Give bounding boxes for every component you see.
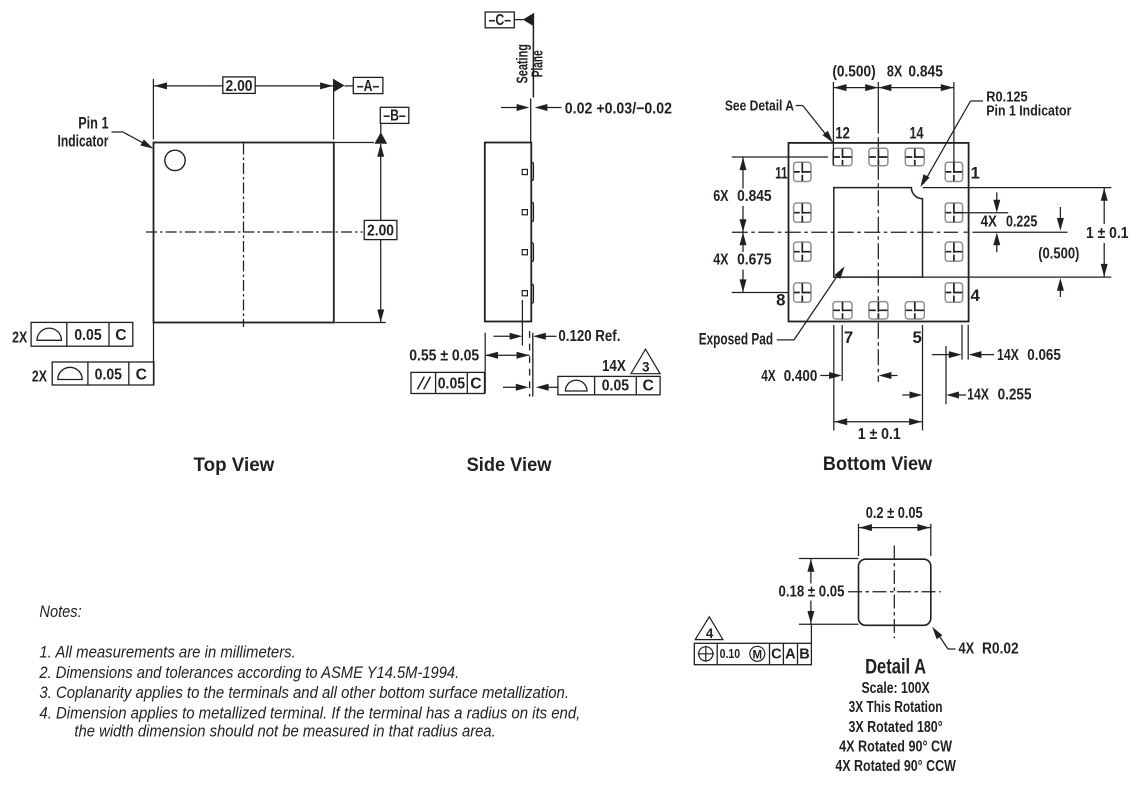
svg-text:Indicator: Indicator [58,132,109,151]
svg-text:0.10: 0.10 [720,647,741,661]
dimension 8X 0.845 top extension line [953,82,955,164]
dimension 14X 0.255 arrows and text [902,394,910,396]
top view left edge extension line [153,323,155,386]
svg-text:0.255: 0.255 [998,386,1032,403]
dimension 14X 0.255 extension line [945,346,947,404]
svg-text:0.2 ± 0.05: 0.2 ± 0.05 [866,505,923,522]
dimension 0.55 extension line [484,333,486,394]
svg-text:(0.500): (0.500) [832,63,875,80]
svg-text:4X: 4X [713,252,729,269]
dimension 0.02 arrows and text [501,107,518,109]
side view package body [485,143,532,322]
top view horizontal centerline [146,231,363,233]
svg-text:2X: 2X [12,329,28,346]
svg-text:Scale: 100X: Scale: 100X [862,680,931,697]
svg-text:3X This Rotation: 3X This Rotation [849,699,943,716]
dimension 6X 0.845 left [740,157,747,170]
svg-text:8: 8 [776,291,785,310]
svg-text:6X: 6X [713,188,729,205]
svg-text:2X: 2X [32,368,48,385]
svg-text:–B–: –B– [383,108,406,125]
seating plane line upper [532,13,534,97]
dimension 2.00 horizontal value box [223,77,255,94]
top view vertical centerline [243,144,245,328]
svg-text:0.675: 0.675 [737,252,772,269]
side view terminal bumps [531,162,533,180]
svg-text:2. Dimensions and tolerances a: 2. Dimensions and tolerances according t… [39,663,460,682]
svg-text:C: C [136,366,147,383]
svg-text:C: C [771,647,782,663]
dimension 4X 0.675 left extension line [732,292,789,294]
svg-text:0.845: 0.845 [908,63,943,80]
detail A terminal pad [859,559,931,625]
dimension 4X 0.225 right [961,212,1008,214]
svg-text:2.00: 2.00 [367,223,394,240]
svg-text:4: 4 [706,626,714,641]
dimension 2.00 vertical extension lines [334,142,374,144]
top view package body outline [154,143,334,323]
datum A symbol [334,79,345,92]
svg-text:C: C [643,378,654,395]
svg-text:4X Rotated 90° CCW: 4X Rotated 90° CCW [835,758,956,775]
dimension 4X 0.400 extension line [841,325,843,381]
svg-text:14X: 14X [967,386,989,403]
svg-text:4X: 4X [959,640,975,657]
dimension 0.18 extension lines [799,558,859,560]
svg-text:11: 11 [775,164,788,183]
dimension 4X 0.675 left [740,233,747,246]
svg-text:1. All measurements are in mil: 1. All measurements are in millimeters. [39,643,295,662]
dimension 2.00 vertical value box [364,220,397,239]
svg-text:5: 5 [913,328,922,347]
svg-text:4X Rotated 90° CW: 4X Rotated 90° CW [839,739,952,756]
pin 1 leader arrow [112,131,124,133]
dimension 0.2 extension lines [858,524,860,556]
feature control frame position [694,643,811,664]
svg-text:1 ± 0.1: 1 ± 0.1 [858,426,901,443]
svg-text:A: A [785,647,796,663]
exposed pad bottom extension line right [923,276,1112,278]
svg-text:4. Dimension applies to metall: 4. Dimension applies to metallized termi… [39,703,580,722]
svg-text:2.00: 2.00 [226,78,253,95]
dimension 0.2 line and arrows [859,527,931,529]
feature control frame profile side view [503,386,517,388]
svg-text:0.225: 0.225 [1006,213,1038,230]
svg-text:0.845: 0.845 [737,188,772,205]
svg-text:0.18 ± 0.05: 0.18 ± 0.05 [779,583,845,600]
feature control frame parallelism [411,372,485,393]
FCF connector line [810,624,812,643]
svg-text:Pin 1 Indicator: Pin 1 Indicator [986,103,1071,120]
svg-text:0.120 Ref.: 0.120 Ref. [558,328,620,345]
dimension (0.500) top line and arrows [833,87,878,89]
dimension 0.18 line arrows and text [807,559,814,572]
svg-text:the width dimension should not: the width dimension should not be measur… [74,722,495,741]
seating plane label [515,44,532,84]
dimension 2.00 horizontal line and arrows [154,85,333,87]
svg-text:3. Coplanarity applies to the: 3. Coplanarity applies to the terminals … [39,683,569,702]
svg-text:14X: 14X [997,347,1019,364]
svg-text:8X: 8X [887,63,903,80]
seating plane line lower [532,333,534,397]
svg-text:–A–: –A– [357,78,380,95]
detail A horizontal centerline [848,591,941,593]
svg-text:0.02 +0.03/−0.02: 0.02 +0.03/−0.02 [565,100,672,117]
dimension (0.500) right [1059,207,1061,219]
dimension 2.00 vertical line and arrows [377,144,384,157]
svg-text:0.55 ± 0.05: 0.55 ± 0.05 [409,347,479,364]
svg-text:7: 7 [844,328,853,347]
svg-text:0.05: 0.05 [438,375,466,392]
dimension 2.00 horizontal extension lines [152,79,154,140]
package surface offset line [530,99,532,143]
svg-text:See Detail A: See Detail A [725,97,794,114]
svg-text:Bottom View: Bottom View [823,453,933,475]
dimension 0.120 Ref arrows and text [494,335,511,337]
svg-text:0.05: 0.05 [95,366,123,383]
dimension 1 plus minus 0.1 bottom [834,421,922,423]
datum C symbol [485,12,514,28]
svg-text:B: B [799,647,809,663]
svg-text:1 ± 0.1: 1 ± 0.1 [1086,225,1129,242]
svg-text:C: C [115,327,126,344]
svg-text:R0.02: R0.02 [982,640,1019,657]
dimension 8X 0.845 top line and arrows [878,87,954,89]
exposed pad top extension line right [923,187,1112,189]
dimension 14X 0.065 extension lines [961,325,963,360]
dimension 14X 0.065 arrows and text [932,354,950,356]
svg-text:Exposed Pad: Exposed Pad [699,331,773,349]
svg-text:(0.500): (0.500) [1038,246,1079,263]
svg-text:14: 14 [910,123,924,142]
svg-text:3: 3 [642,359,650,374]
dimension (0.500) top extension line [832,82,834,166]
svg-text:14X: 14X [602,358,626,375]
svg-text:C: C [470,375,481,392]
svg-text:Notes:: Notes: [39,602,82,621]
note flag 4 [695,617,723,640]
svg-text:3X Rotated 180°: 3X Rotated 180° [849,719,943,736]
dimension 0.120 Ref extension line [521,300,523,346]
bottom view package outline [789,143,969,322]
bottom view vertical centerline [877,82,879,134]
svg-text:12: 12 [835,123,850,142]
svg-text:Plane: Plane [529,50,546,77]
svg-text:0.05: 0.05 [74,327,102,344]
svg-text:M: M [753,649,763,661]
detail A vertical centerline [893,546,895,639]
svg-text:0.05: 0.05 [602,378,630,395]
svg-text:0.400: 0.400 [784,368,818,385]
dimension 6X 0.845 left extension line [732,156,828,158]
svg-text:Detail A: Detail A [865,656,926,679]
svg-text:–C–: –C– [489,12,512,29]
dimension 1 plus minus 0.1 right [1101,188,1108,201]
exposed pad with pin 1 notch [834,188,923,278]
svg-text:4: 4 [971,286,981,305]
svg-text:4X: 4X [761,368,776,385]
svg-text:Top View: Top View [194,454,275,476]
pin 1 indicator circle [165,150,185,170]
svg-text:1: 1 [971,164,980,183]
side view terminal cross sections [522,169,527,174]
dimension 1 plus minus 0.1 bottom extension lines [833,325,835,431]
svg-text:4X: 4X [981,213,998,230]
bottom view terminal pads [833,148,852,165]
datum B symbol [380,107,409,123]
svg-text:Pin 1: Pin 1 [78,114,108,133]
bottom view horizontal centerline [732,231,958,233]
svg-text:0.065: 0.065 [1027,347,1061,364]
svg-text:Side View: Side View [467,454,553,476]
seating plane hidden line lower [529,331,531,397]
